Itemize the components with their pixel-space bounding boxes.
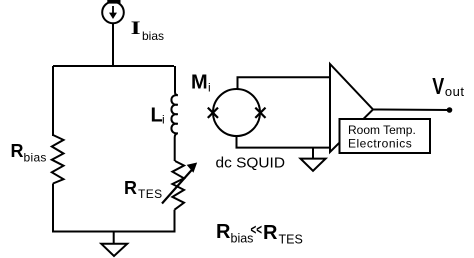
svg-text:TES: TES <box>279 233 303 247</box>
label R_bias <box>11 141 47 165</box>
svg-text:bias: bias <box>24 151 47 165</box>
svg-text:out: out <box>445 84 465 99</box>
op-amp U2 <box>330 64 373 152</box>
svg-text:TES: TES <box>138 187 163 201</box>
wire SQUID top to amp <box>238 77 331 89</box>
svg-text:R: R <box>263 222 278 244</box>
wire right branch middle <box>175 133 178 161</box>
box Room Temp. Electronics <box>340 119 431 153</box>
label V_out <box>432 74 464 100</box>
svg-text:R: R <box>216 221 231 243</box>
node V_out <box>447 107 453 113</box>
label M_i <box>191 72 211 95</box>
ground main <box>101 232 127 257</box>
svg-text:R: R <box>11 141 24 161</box>
svg-text:dc SQUID: dc SQUID <box>216 155 286 172</box>
junction X left <box>208 108 218 118</box>
label I_bias <box>131 17 164 43</box>
wire SQUID bottom to amp <box>237 136 331 148</box>
label R_TES <box>124 178 163 201</box>
svg-text:bias: bias <box>142 29 164 43</box>
wire bottom horizontal <box>53 231 175 233</box>
inductor L_i <box>171 95 177 133</box>
resistor R_bias <box>52 135 64 184</box>
svg-text:L: L <box>151 105 163 127</box>
svg-text:<<: << <box>251 222 263 239</box>
current source I1 <box>102 0 124 23</box>
dc SQUID U1 <box>213 89 260 136</box>
svg-text:Electronics: Electronics <box>348 137 412 151</box>
ground SQUID <box>301 148 326 171</box>
svg-text:Room Temp.: Room Temp. <box>348 123 416 137</box>
svg-text:R: R <box>124 178 137 198</box>
svg-text:I: I <box>131 17 141 38</box>
wire amp output <box>373 109 450 112</box>
wire left branch lower <box>52 184 54 233</box>
label R_bias << R_TES <box>216 221 303 247</box>
wire left branch upper <box>52 66 54 136</box>
svg-text:i: i <box>162 113 165 127</box>
svg-text:M: M <box>191 72 208 94</box>
wire current source to top node <box>112 23 114 66</box>
label L_i <box>151 105 165 127</box>
wire right branch lower <box>174 210 176 233</box>
svg-text:V: V <box>432 74 444 100</box>
junction X right <box>255 108 265 118</box>
wire top horizontal <box>53 65 174 67</box>
resistor R_TES <box>162 161 196 210</box>
wire right branch upper <box>175 66 178 95</box>
svg-text:i: i <box>208 81 211 95</box>
